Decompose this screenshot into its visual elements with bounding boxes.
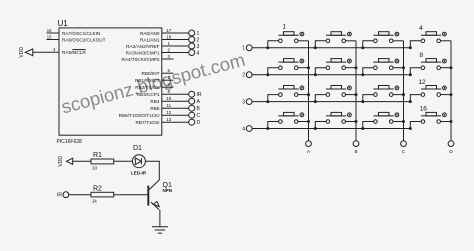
pin RA5/MCLR (pin 4) (53, 47, 86, 55)
svg-text:D1: D1 (133, 145, 142, 152)
wire S4 left contact to row 1 (409, 41, 421, 50)
node IR (input) (57, 192, 69, 199)
wire S14 right contact to column B (346, 120, 358, 123)
power VDD (bottom) (58, 156, 73, 167)
pin RB1/RX/DT (pin 7) (135, 75, 173, 83)
label switch 12 (418, 79, 426, 86)
wire S3 left contact to row 1 (361, 41, 373, 50)
svg-text:R1: R1 (93, 152, 102, 159)
wire S2 left contact to row 1 (314, 41, 326, 50)
svg-text:8: 8 (419, 52, 423, 59)
svg-text:D: D (449, 149, 453, 154)
label switch 16 (420, 105, 428, 112)
wire column D line (450, 41, 452, 141)
wire S11 right contact to column C (393, 93, 405, 96)
pin RA1/AN1 (pin 18) (140, 34, 189, 42)
svg-text:3: 3 (197, 44, 200, 50)
svg-text:10: 10 (92, 165, 98, 170)
watermark scopionz.blogspot.com (59, 49, 247, 118)
svg-text:18: 18 (166, 34, 172, 39)
pushbutton S14 (row 4, col B) (326, 112, 351, 123)
wire column A line (308, 41, 310, 141)
svg-text:RB7/T1OSI: RB7/T1OSI (136, 120, 160, 125)
wire S6 left contact to row 2 (314, 68, 326, 77)
pin RB4 (pin 10) (150, 96, 189, 104)
svg-text:1: 1 (197, 31, 200, 37)
svg-text:PIC16F628: PIC16F628 (57, 139, 83, 145)
svg-text:U1: U1 (58, 19, 69, 28)
pushbutton S15 (row 4, col C) (373, 112, 398, 123)
svg-text:RB0/INT: RB0/INT (142, 71, 160, 76)
wire S8 left contact to row 2 (409, 68, 421, 77)
pin RA0/AN0 (pin 17) (140, 28, 189, 36)
pushbutton S12 (row 3, col D) (421, 86, 446, 97)
wire Q1 emitter to ground (159, 210, 161, 227)
svg-text:10: 10 (166, 96, 172, 101)
pushbutton S10 (row 3, col B) (326, 86, 351, 97)
svg-text:D: D (197, 120, 201, 126)
svg-text:C: C (197, 113, 201, 119)
resistor R1 10 (91, 152, 114, 170)
wire S15 left contact to row 4 (361, 122, 373, 131)
label switch 4 (419, 25, 423, 32)
node B (keypad column output) (353, 141, 359, 154)
svg-text:1k: 1k (92, 199, 98, 204)
ground (152, 227, 168, 233)
wire row 2 line (252, 74, 410, 76)
svg-text:LED-IR: LED-IR (131, 170, 147, 175)
wire S9 right contact to column A (298, 93, 310, 96)
svg-text:RB4: RB4 (150, 99, 160, 104)
svg-text:VDD: VDD (58, 156, 64, 167)
svg-text:VDD: VDD (19, 47, 25, 58)
pin RB3/CCP1 (pin 9) (137, 89, 189, 97)
wire column B line (355, 41, 357, 141)
pin RA4/T0CKI/CMP2 (pin 3) (121, 54, 173, 62)
node IR (IC side connector) (189, 91, 202, 98)
wire S6 right contact to column B (346, 66, 358, 69)
svg-text:RA7/OSC1/CLKIN: RA7/OSC1/CLKIN (62, 31, 100, 36)
pin RA7/OSC1/CLKIN (pin 16) (47, 28, 101, 36)
pushbutton S1 (row 1, col A) (278, 32, 303, 43)
wire S9 left contact to row 3 (266, 95, 278, 104)
node D (keypad column output) (448, 141, 454, 154)
wire S12 right contact to column D (441, 93, 453, 96)
svg-text:RA2/AN2/VREF: RA2/AN2/VREF (126, 44, 159, 49)
node A (IC side connector) (189, 98, 201, 105)
svg-text:4: 4 (419, 25, 423, 32)
pin RB7/T1OSI (pin 13) (136, 117, 189, 125)
svg-text:RB2/TX/CK: RB2/TX/CK (135, 85, 160, 90)
label switch 1 (282, 24, 286, 31)
svg-text:C: C (402, 149, 406, 154)
diode D1 LED-IR (131, 145, 147, 176)
svg-text:12: 12 (418, 79, 426, 86)
svg-text:A: A (197, 99, 201, 105)
wire S5 right contact to column A (298, 66, 310, 69)
svg-text:2: 2 (168, 47, 171, 52)
node row 4 (keypad row input) (242, 126, 252, 133)
node row 2 (keypad row input) (242, 72, 252, 79)
svg-text:RA4/T0CKI/CMP2: RA4/T0CKI/CMP2 (121, 57, 159, 62)
wire S11 left contact to row 3 (361, 95, 373, 104)
svg-text:IR: IR (197, 92, 202, 98)
node row 1 (keypad row input) (242, 45, 252, 52)
svg-text:1: 1 (242, 46, 245, 52)
svg-text:2: 2 (242, 73, 245, 79)
svg-text:RA1/AN1: RA1/AN1 (140, 37, 160, 42)
wire S12 left contact to row 3 (409, 95, 421, 104)
wire D1 to Q1 collector (145, 161, 159, 189)
pin RB6/T1OSO/T1CKI (pin 12) (119, 110, 189, 118)
svg-text:R2: R2 (93, 186, 102, 193)
svg-text:16: 16 (420, 105, 428, 112)
svg-text:RA5/MCLR: RA5/MCLR (62, 50, 86, 55)
svg-text:12: 12 (166, 110, 172, 115)
pushbutton S13 (row 4, col A) (278, 112, 303, 123)
node A (keypad column output) (306, 141, 312, 154)
op IC U1 PIC16F628 body (57, 19, 162, 145)
wire S8 right contact to column D (441, 66, 453, 69)
wire S2 right contact to column B (346, 40, 357, 42)
wire S16 right contact to column D (441, 120, 453, 123)
node 2 (IC side connector) (189, 37, 200, 44)
wire S1 right contact to column A (298, 40, 309, 42)
svg-text:RA6/OSC2/CLKOUT: RA6/OSC2/CLKOUT (62, 37, 106, 42)
wire S13 left contact to row 4 (266, 122, 278, 131)
svg-text:RB6/T1OSO/T1CKI: RB6/T1OSO/T1CKI (119, 113, 160, 118)
wire IR to R2 (69, 194, 91, 196)
svg-text:13: 13 (166, 117, 172, 122)
svg-text:RB5: RB5 (150, 106, 160, 111)
wire row 3 line (252, 101, 410, 103)
wire row 1 line (252, 47, 410, 49)
wire S13 right contact to column A (298, 120, 310, 123)
svg-text:RA3/AN3/CMP1: RA3/AN3/CMP1 (126, 50, 160, 55)
pin RB0/INT (pin 6) (142, 68, 174, 76)
resistor R2 1k (91, 186, 114, 204)
node row 3 (keypad row input) (242, 99, 252, 106)
svg-text:9: 9 (168, 89, 171, 94)
wire S1 left contact to row 1 (266, 41, 278, 50)
svg-text:RB1/RX/DT: RB1/RX/DT (135, 78, 160, 83)
svg-text:11: 11 (166, 103, 171, 108)
pin RB2/TX/CK (pin 8) (135, 82, 173, 90)
wire S10 left contact to row 3 (314, 95, 326, 104)
wire S7 right contact to column C (393, 66, 405, 69)
svg-text:B: B (354, 149, 357, 154)
svg-text:1: 1 (168, 41, 171, 46)
transistor Q1 NPN (148, 182, 172, 210)
node D (IC side connector) (189, 119, 201, 126)
wire VDD to R1 (73, 160, 91, 162)
node 1 (IC side connector) (189, 30, 200, 37)
wire S4 right contact to column D (441, 40, 452, 42)
wire S10 right contact to column B (346, 93, 358, 96)
pushbutton S6 (row 2, col B) (326, 59, 351, 70)
pushbutton S11 (row 3, col C) (373, 86, 398, 97)
node 3 (IC side connector) (189, 43, 200, 50)
node B (IC side connector) (189, 105, 201, 112)
svg-text:B: B (197, 106, 201, 112)
pin RA6/OSC2/CLKOUT (pin 15) (47, 35, 106, 43)
svg-text:17: 17 (166, 28, 172, 33)
svg-text:NPN: NPN (163, 188, 173, 193)
pushbutton S8 (row 2, col D) (421, 59, 446, 70)
svg-text:4: 4 (242, 126, 245, 132)
pushbutton S4 (row 1, col D) (421, 32, 446, 43)
pin RA3/AN3/CMP1 (pin 2) (126, 47, 189, 55)
svg-text:3: 3 (168, 54, 171, 59)
svg-text:RA0/AN0: RA0/AN0 (140, 31, 160, 36)
svg-text:2: 2 (197, 37, 200, 43)
wire R1 to D1 (114, 160, 133, 162)
wire S3 right contact to column C (393, 40, 404, 42)
svg-text:1: 1 (282, 24, 286, 31)
wire S7 left contact to row 2 (361, 68, 373, 77)
pushbutton S2 (row 1, col B) (326, 32, 351, 43)
pushbutton S3 (row 1, col C) (373, 32, 398, 43)
label switch 8 (419, 52, 423, 59)
wire S16 left contact to row 4 (409, 122, 421, 131)
node C (IC side connector) (189, 112, 201, 119)
svg-text:A: A (307, 149, 310, 154)
pushbutton S7 (row 2, col C) (373, 59, 398, 70)
wire S15 right contact to column C (393, 120, 405, 123)
power VDD (top) (19, 47, 33, 58)
svg-text:15: 15 (47, 35, 52, 40)
svg-text:IR: IR (57, 193, 62, 199)
node C (keypad column output) (401, 141, 407, 154)
wire VDD to pin 4 (33, 51, 59, 53)
pushbutton S9 (row 3, col A) (278, 86, 303, 97)
svg-text:3: 3 (242, 99, 245, 105)
node 4 (IC side connector) (189, 50, 200, 57)
pin RA2/AN2/VREF (pin 1) (126, 41, 189, 49)
svg-text:4: 4 (53, 47, 56, 52)
wire R2 to Q1 base (114, 194, 148, 196)
wire column C line (403, 41, 405, 141)
pin RB5 (pin 11) (150, 103, 189, 111)
wire row 4 line (252, 128, 410, 130)
pushbutton S5 (row 2, col A) (278, 59, 303, 70)
pushbutton S16 (row 4, col D) (421, 112, 446, 123)
wire S14 left contact to row 4 (314, 122, 326, 131)
svg-text:4: 4 (197, 50, 200, 56)
svg-text:16: 16 (47, 28, 52, 33)
svg-text:RB3/CCP1: RB3/CCP1 (137, 92, 160, 97)
wire S5 left contact to row 2 (266, 68, 278, 77)
